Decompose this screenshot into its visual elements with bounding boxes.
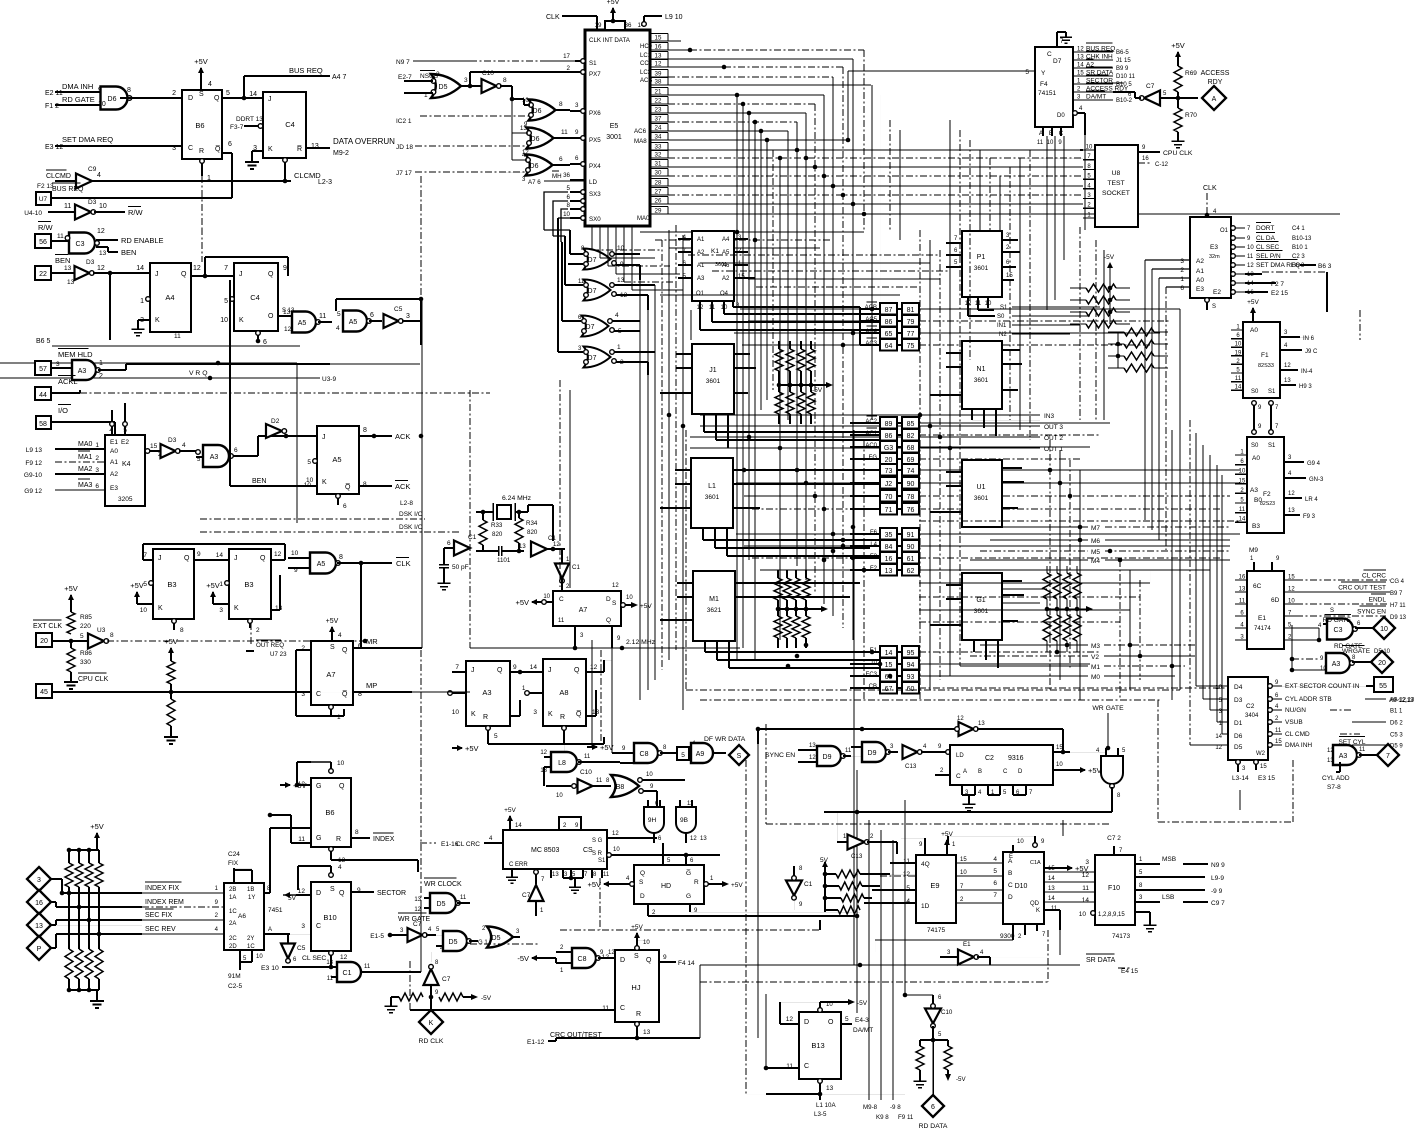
svg-text:RD DATA: RD DATA (919, 1123, 948, 1130)
IC F4 74151 (1035, 47, 1073, 127)
svg-text:B3: B3 (167, 580, 176, 589)
E9 right pins (956, 862, 1003, 864)
svg-text:S: S (330, 886, 335, 893)
svg-text:11: 11 (1051, 906, 1058, 912)
svg-text:3: 3 (301, 691, 305, 698)
svg-text:Q: Q (260, 555, 266, 562)
svg-text:+5V: +5V (130, 581, 144, 590)
svg-text:3601: 3601 (974, 265, 989, 272)
wire ACK-bar out (359, 485, 392, 487)
svg-text:12: 12 (602, 954, 610, 961)
svg-text:10: 10 (337, 760, 345, 767)
extra bus horizontals upper mid (688, 254, 940, 256)
svg-text:P1: P1 (977, 254, 986, 261)
svg-text:MSB: MSB (1162, 856, 1176, 863)
svg-text:K: K (322, 479, 327, 486)
svg-text:W2: W2 (1256, 751, 1266, 757)
svg-text:86: 86 (885, 433, 893, 440)
bus vertical drops mid group (863, 50, 865, 232)
B10 bottom pin (329, 951, 334, 956)
svg-text:LSB: LSB (1162, 894, 1174, 901)
svg-text:A3: A3 (482, 688, 491, 697)
wire MA2 (55, 473, 105, 475)
capacitor 50pF (443, 556, 445, 560)
svg-text:K1: K1 (711, 248, 719, 255)
svg-text:15: 15 (1077, 71, 1084, 77)
svg-text:SYNC EN: SYNC EN (1357, 609, 1386, 616)
B6 Q-bar wire down (222, 152, 232, 154)
svg-text:Q: Q (497, 667, 503, 674)
svg-text:3601: 3601 (705, 494, 720, 501)
svg-text:3: 3 (1180, 258, 1184, 265)
svg-text:5: 5 (567, 185, 571, 192)
ff A7 left (311, 641, 353, 705)
svg-text:13: 13 (1247, 272, 1254, 278)
svg-text:10: 10 (1079, 911, 1087, 918)
svg-text:1: 1 (99, 360, 103, 367)
svg-text:A5: A5 (332, 455, 341, 464)
input diamond 3 (27, 867, 51, 891)
svg-text:+5V: +5V (1088, 766, 1102, 775)
svg-text:ACK: ACK (395, 482, 410, 491)
+5V at B6 index (280, 784, 290, 786)
svg-text:B10 1: B10 1 (1292, 245, 1308, 251)
svg-text:-5V: -5V (1104, 254, 1115, 261)
svg-text:A3: A3 (697, 276, 705, 282)
svg-text:9316: 9316 (1008, 755, 1024, 762)
wire down from A8 12 (586, 671, 604, 673)
input diamond 13 (27, 913, 51, 937)
svg-text:CLK INT DATA: CLK INT DATA (589, 37, 631, 44)
or gate D7 a (584, 249, 611, 270)
svg-text:R: R (694, 879, 699, 886)
svg-text:3: 3 (406, 313, 410, 320)
wire from C1 up dash-dot (420, 760, 422, 905)
svg-text:39: 39 (655, 71, 662, 78)
svg-text:J: J (239, 271, 243, 278)
svg-text:SX3: SX3 (589, 191, 601, 198)
svg-text:A9: A9 (696, 751, 705, 758)
resistor bank right of G1 upper (1046, 566, 1048, 573)
resistor R70 (1177, 98, 1179, 108)
svg-text:13: 13 (64, 265, 72, 272)
svg-text:6: 6 (567, 194, 571, 201)
svg-text:3601: 3601 (974, 608, 989, 615)
svg-text:E9: E9 (930, 881, 939, 890)
svg-text:U1: U1 (977, 484, 986, 491)
svg-text:MA0: MA0 (78, 441, 93, 448)
svg-text:8: 8 (127, 87, 131, 94)
svg-text:3: 3 (219, 607, 223, 614)
ground at A4 K (138, 319, 150, 321)
svg-text:M9-2: M9-2 (333, 150, 349, 157)
svg-text:Q: Q (574, 667, 580, 674)
svg-text:CPU CLK: CPU CLK (1163, 150, 1193, 157)
svg-text:13: 13 (655, 53, 662, 60)
svg-text:SX0: SX0 (589, 216, 601, 223)
svg-text:16: 16 (1239, 575, 1246, 581)
ACKL dashed wire (80, 392, 490, 394)
svg-text:C: C (1008, 882, 1013, 889)
svg-text:3: 3 (301, 923, 305, 930)
wire to F4 Y input (847, 71, 849, 140)
svg-text:6: 6 (228, 141, 232, 148)
svg-text:3601: 3601 (974, 377, 989, 384)
flip-flop A4 (150, 263, 191, 332)
svg-text:B: B (1008, 870, 1012, 877)
F4 bottom pins (1042, 127, 1044, 136)
D10 C1A +5V (1044, 867, 1054, 869)
svg-text:6: 6 (358, 643, 362, 650)
D10 right pins (1044, 871, 1095, 873)
svg-text:35: 35 (885, 532, 893, 539)
svg-text:L2-3: L2-3 (318, 179, 332, 186)
or gate D5 c (487, 927, 513, 948)
buffer C5 (384, 314, 399, 328)
svg-text:14: 14 (1077, 63, 1084, 69)
svg-text:20: 20 (885, 457, 893, 464)
nand C8 b (532, 957, 542, 959)
svg-text:ENDL: ENDL (1369, 597, 1387, 604)
resistor bank A upper (775, 349, 783, 371)
svg-text:A4: A4 (165, 293, 174, 302)
ff HJ (615, 950, 659, 1022)
IC F2 82S23 (1247, 437, 1284, 533)
svg-text:15: 15 (960, 857, 967, 863)
svg-text:12: 12 (97, 265, 105, 272)
inverter C7 up (424, 969, 439, 985)
svg-text:A6: A6 (722, 263, 730, 269)
svg-text:26: 26 (655, 198, 662, 205)
MC8503 left pin R (484, 842, 503, 844)
wire from dot 1063 down to D10 (1062, 820, 1064, 836)
svg-text:81: 81 (907, 307, 915, 314)
svg-text:B6: B6 (325, 808, 334, 817)
svg-text:S0: S0 (997, 314, 1005, 320)
svg-text:7451: 7451 (268, 907, 283, 914)
svg-text:H9 3: H9 3 (1299, 384, 1312, 390)
svg-text:10: 10 (1017, 839, 1024, 845)
svg-text:6: 6 (447, 540, 451, 547)
svg-text:A3: A3 (210, 454, 219, 461)
svg-text:B10: B10 (323, 913, 336, 922)
svg-text:D5: D5 (437, 901, 446, 908)
svg-text:20: 20 (40, 638, 48, 645)
resistor bank A lower (775, 392, 783, 414)
svg-text:7: 7 (455, 664, 459, 671)
dash-dot border bottom mid (766, 823, 1110, 825)
svg-text:16: 16 (1142, 156, 1149, 162)
wire B6 Q to BUS REQ and C4 (222, 97, 263, 99)
svg-text:2.12 MHz: 2.12 MHz (626, 639, 656, 646)
svg-text:R86: R86 (80, 650, 92, 657)
svg-text:J1 15: J1 15 (1116, 58, 1131, 64)
svg-text:6D: 6D (1271, 597, 1280, 604)
svg-text:E5: E5 (610, 123, 619, 130)
svg-text:CL SEC: CL SEC (302, 955, 326, 962)
IC E9 74175 (916, 855, 956, 923)
svg-text:61: 61 (907, 556, 915, 563)
wire CLCMD out (91, 180, 291, 182)
inverter C13 b (848, 835, 865, 850)
svg-text:SEC REV: SEC REV (145, 926, 176, 933)
svg-text:CLK: CLK (546, 14, 560, 21)
svg-text:S1: S1 (1268, 443, 1276, 449)
nand D9 b (862, 742, 886, 762)
or gate D7 b (584, 280, 611, 301)
svg-text:94: 94 (907, 662, 915, 669)
svg-text:CL SEC: CL SEC (1256, 244, 1280, 251)
F1 right outputs (1280, 336, 1300, 338)
or gate D7 c (582, 316, 609, 337)
svg-text:B: B (978, 769, 982, 775)
svg-text:5: 5 (337, 311, 341, 318)
svg-text:5: 5 (845, 1016, 849, 1023)
resistor group right of U8 lower (1124, 328, 1154, 336)
svg-text:11: 11 (578, 279, 585, 285)
svg-text:HJ: HJ (631, 983, 640, 992)
svg-text:15: 15 (1260, 764, 1267, 770)
svg-text:13: 13 (1284, 378, 1291, 384)
wire RD GATE (55, 104, 100, 106)
svg-text:INDEX FIX: INDEX FIX (145, 885, 180, 892)
svg-text:DA/MT: DA/MT (853, 1027, 873, 1034)
svg-text:A8: A8 (559, 688, 568, 697)
svg-text:S: S (634, 953, 639, 960)
svg-text:BUS REQ: BUS REQ (289, 66, 323, 75)
pullup resistor bank top (68, 850, 70, 863)
svg-text:BUS REQ: BUS REQ (52, 186, 84, 193)
svg-text:2C: 2C (229, 936, 237, 942)
svg-text:K4: K4 (122, 461, 131, 468)
svg-text:K: K (268, 146, 273, 153)
wire D6 out to B6 D (120, 97, 182, 99)
M1 bottom pins (704, 641, 706, 652)
svg-text:60: 60 (907, 686, 915, 693)
svg-text:82: 82 (907, 433, 915, 440)
extra verticals below E5 (591, 226, 593, 250)
svg-text:ACK: ACK (395, 432, 410, 441)
svg-text:A3: A3 (1339, 753, 1348, 760)
svg-text:12: 12 (1247, 263, 1254, 269)
svg-text:F9 12: F9 12 (25, 460, 42, 467)
svg-text:11: 11 (327, 976, 334, 982)
svg-text:820: 820 (527, 529, 538, 536)
K4 top pins (111, 426, 113, 435)
svg-text:B3: B3 (1252, 523, 1260, 530)
svg-text:15: 15 (1006, 273, 1013, 279)
svg-text:5: 5 (1025, 69, 1029, 76)
svg-text:L3-14: L3-14 (1232, 775, 1249, 782)
svg-text:7: 7 (1386, 753, 1390, 760)
gate D6 (DMA INH / RD GATE nand) (101, 87, 128, 110)
svg-text:M4: M4 (1091, 558, 1100, 565)
svg-text:10: 10 (1320, 666, 1327, 672)
svg-text:11: 11 (558, 618, 565, 624)
IC MC8503 CRC (503, 830, 607, 869)
svg-text:13: 13 (826, 1085, 834, 1092)
svg-text:D9 13: D9 13 (1390, 615, 1407, 621)
svg-text:Q: Q (342, 647, 348, 654)
svg-text:D5: D5 (492, 935, 501, 942)
svg-text:62: 62 (907, 568, 915, 575)
svg-text:D7: D7 (1053, 58, 1062, 65)
svg-text:MA8: MA8 (634, 138, 647, 145)
svg-text:10: 10 (1247, 245, 1254, 251)
flip-flop C4 second (234, 263, 278, 331)
svg-text:2B: 2B (229, 887, 236, 893)
svg-text:5: 5 (494, 733, 498, 740)
bus horizontal lines from E5 (668, 40, 681, 42)
inverter C10 crc (572, 784, 577, 789)
svg-text:15: 15 (885, 662, 893, 669)
MC8503 top box (559, 817, 581, 830)
svg-text:12: 12 (340, 954, 348, 961)
resistor bank B upper (y578) (774, 578, 782, 600)
svg-text:84: 84 (885, 544, 893, 551)
svg-text:220: 220 (80, 623, 91, 630)
svg-text:CG 4: CG 4 (1390, 579, 1405, 585)
diamond S df wr data (729, 745, 749, 765)
svg-text:8: 8 (363, 481, 367, 488)
svg-text:D: D (1008, 894, 1013, 901)
HJ C wire from left (598, 1009, 615, 1011)
svg-text:13: 13 (978, 721, 985, 727)
svg-text:2: 2 (95, 455, 99, 462)
svg-text:C1A: C1A (1030, 860, 1041, 866)
ff B3 second (229, 549, 271, 619)
buffer C9 CLCMD (55, 180, 76, 182)
dash-dot frame around memory column (686, 689, 1180, 691)
F4 pin4 stub (1073, 111, 1078, 116)
verticals between U8 and E3 (1079, 227, 1081, 420)
svg-text:Q: Q (181, 271, 187, 278)
IC M1 3621 (693, 571, 735, 641)
B6 G11 wire (291, 842, 311, 844)
svg-text:E1-16: E1-16 (441, 841, 459, 848)
nand C3 (51, 240, 69, 242)
bus verticals left column (from D7 gates) (639, 280, 641, 700)
svg-text:5: 5 (143, 581, 147, 588)
svg-text:IN 6: IN 6 (1303, 336, 1315, 342)
svg-text:C3: C3 (1334, 627, 1343, 634)
svg-text:1A: 1A (229, 895, 236, 901)
svg-text:15: 15 (1275, 739, 1282, 745)
svg-text:10: 10 (306, 477, 314, 484)
svg-text:28: 28 (655, 180, 662, 187)
svg-text:CPU CLK: CPU CLK (78, 676, 109, 683)
svg-text:12: 12 (903, 871, 911, 878)
svg-text:2: 2 (158, 451, 162, 458)
E5 SX input wires (505, 171, 528, 173)
A7 right pin +5V (621, 603, 626, 608)
svg-text:J1: J1 (709, 367, 717, 374)
svg-text:77: 77 (907, 331, 915, 338)
svg-text:12: 12 (274, 551, 282, 558)
nand A5 CLK (288, 557, 311, 559)
svg-text:E2-7: E2-7 (398, 74, 412, 81)
svg-text:23: 23 (655, 107, 662, 114)
svg-text:11: 11 (1239, 599, 1246, 605)
svg-text:2: 2 (99, 373, 103, 380)
svg-text:SYNC EN: SYNC EN (765, 752, 795, 759)
wire CPU CLK long (52, 691, 311, 693)
F10 top pin (1113, 846, 1115, 855)
svg-text:13: 13 (326, 960, 333, 966)
ff B6 index (311, 778, 351, 847)
ff A8 bottom (543, 659, 586, 726)
svg-text:16: 16 (655, 44, 662, 51)
svg-text:C1: C1 (548, 535, 556, 542)
svg-text:O: O (268, 313, 274, 320)
svg-text:F2: F2 (1263, 491, 1271, 498)
svg-text:13: 13 (99, 250, 107, 257)
svg-text:8: 8 (355, 829, 359, 836)
long dash vertical left (420, 176, 422, 299)
resistor to gnd / -5V (399, 993, 423, 1001)
svg-text:3: 3 (464, 77, 468, 84)
svg-text:6: 6 (575, 155, 579, 162)
IC A6 7451 (224, 883, 264, 950)
wire register chain verticals (875, 939, 1013, 941)
svg-text:11: 11 (57, 233, 64, 240)
svg-text:13: 13 (1077, 55, 1084, 61)
svg-text:WR CLOCK: WR CLOCK (424, 881, 462, 888)
junction dots on input wires (67, 891, 72, 896)
svg-text:9B: 9B (680, 817, 688, 824)
svg-text:74174: 74174 (1254, 626, 1271, 632)
svg-text:5: 5 (224, 298, 228, 305)
buffer C13 (903, 745, 918, 759)
svg-text:14: 14 (885, 650, 893, 657)
svg-text:Q: Q (606, 617, 611, 624)
svg-text:11: 11 (1037, 140, 1044, 146)
svg-text:8: 8 (110, 632, 114, 639)
svg-text:C13: C13 (851, 853, 863, 860)
svg-text:10: 10 (1239, 469, 1246, 475)
svg-text:D9: D9 (823, 754, 832, 761)
svg-text:12: 12 (809, 755, 816, 761)
or gate D6 a (529, 100, 556, 121)
resistor rd data (916, 1046, 924, 1070)
D10 top pins (1012, 845, 1014, 852)
svg-text:D7: D7 (586, 324, 595, 331)
svg-text:11: 11 (1235, 376, 1242, 382)
svg-text:10: 10 (626, 595, 633, 601)
group2 row wires (850, 422, 880, 424)
+5V at A7 left (532, 601, 542, 603)
svg-text:A0: A0 (110, 448, 118, 455)
svg-text:-5V: -5V (812, 387, 823, 394)
D10 bottom pins (1012, 924, 1014, 940)
svg-text:S: S (199, 91, 204, 98)
svg-text:C ERR: C ERR (509, 862, 528, 868)
BEN junction down (108, 271, 113, 276)
svg-text:ACKL: ACKL (58, 377, 78, 386)
svg-text:K: K (155, 317, 160, 324)
svg-text:8: 8 (339, 554, 343, 561)
IC E1 74174 (1247, 571, 1284, 649)
svg-text:10: 10 (1215, 685, 1222, 691)
svg-text:14: 14 (136, 265, 144, 272)
svg-text:PX7: PX7 (589, 71, 601, 78)
A6 bottom pins (239, 950, 241, 962)
svg-text:A7 6: A7 6 (528, 179, 541, 186)
svg-text:J2: J2 (885, 481, 893, 488)
svg-text:A6: A6 (238, 913, 246, 920)
svg-text:2: 2 (436, 71, 440, 78)
IC C2 3404 (1228, 677, 1268, 760)
